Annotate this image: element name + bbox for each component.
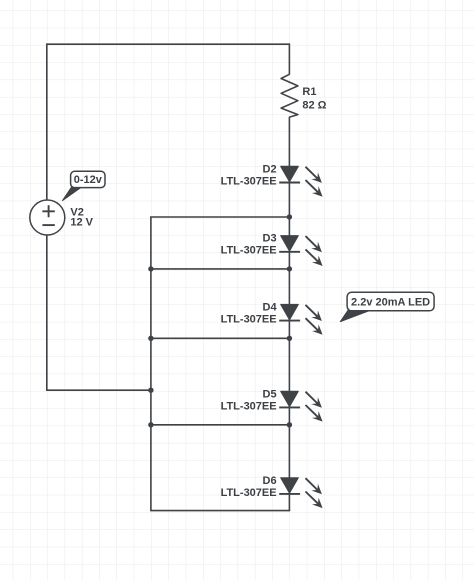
junction dot at (289,269) (287, 266, 292, 271)
voltage source V2 (DC source circle) (30, 200, 65, 235)
wire: rung bottom below D6 (150, 510, 290, 512)
LED D6 (LTL-307EE) (279, 478, 322, 508)
svg-text:12 V: 12 V (70, 217, 93, 229)
wire: rung below D5 (150, 424, 290, 426)
callout balloon 0-12v pointing at V2 (62, 187, 81, 201)
svg-text:2.2v 20mA LED: 2.2v 20mA LED (351, 296, 430, 308)
svg-text:LTL-307EE: LTL-307EE (221, 175, 277, 187)
wire: ladder bus vertical (150, 217, 152, 511)
svg-text:LTL-307EE: LTL-307EE (221, 400, 277, 412)
minus sign of V2 (42, 224, 54, 226)
svg-text:D4: D4 (263, 302, 278, 314)
svg-text:D5: D5 (263, 388, 277, 400)
junction dot at (151,390) (148, 388, 153, 393)
svg-text:LTL-307EE: LTL-307EE (221, 245, 277, 257)
svg-text:D3: D3 (263, 233, 277, 245)
junction dot at (289,338) (287, 336, 292, 341)
wire: bottom horizontal from V2 branch to bus node (46, 389, 151, 391)
svg-text:D2: D2 (263, 163, 277, 175)
svg-text:LTL-307EE: LTL-307EE (221, 314, 277, 326)
junction dot at (289,217) (287, 214, 292, 219)
wire: top horizontal from V2 to R1 branch (47, 43, 290, 45)
junction dot at (151,269) (148, 266, 153, 271)
junction dot at (151,425) (148, 422, 153, 427)
LED D2 (LTL-307EE) (279, 166, 322, 196)
wire: main vertical, resistor R1 to bottom rung through LEDs (288, 117, 290, 511)
junction dot at (289,425) (287, 422, 292, 427)
wire: left vertical from V2 minus terminal down (46, 235, 48, 390)
junction dot at (151,338) (148, 336, 153, 341)
LED D4 (LTL-307EE) (279, 305, 322, 335)
resistor R1 (281, 74, 298, 117)
svg-text:82 Ω: 82 Ω (302, 100, 326, 112)
svg-text:LTL-307EE: LTL-307EE (221, 487, 277, 499)
wire: rung above D3 (150, 216, 290, 218)
wire: rung below D4 (150, 337, 290, 339)
wire: main vertical, top corner down to resistor R1 (288, 43, 290, 74)
LED D3 (LTL-307EE) (279, 236, 322, 266)
LED D5 (LTL-307EE) (279, 391, 322, 421)
svg-text:D6: D6 (263, 475, 277, 487)
callout balloon 2.2v 20mA LED pointing at D4 (340, 310, 372, 322)
svg-text:0-12v: 0-12v (74, 174, 103, 186)
wire: left vertical from top wire down to V2 plus terminal (46, 43, 48, 200)
plus sign of V2 (42, 205, 54, 217)
wire: rung below D3 (150, 268, 290, 270)
svg-text:R1: R1 (302, 86, 316, 98)
